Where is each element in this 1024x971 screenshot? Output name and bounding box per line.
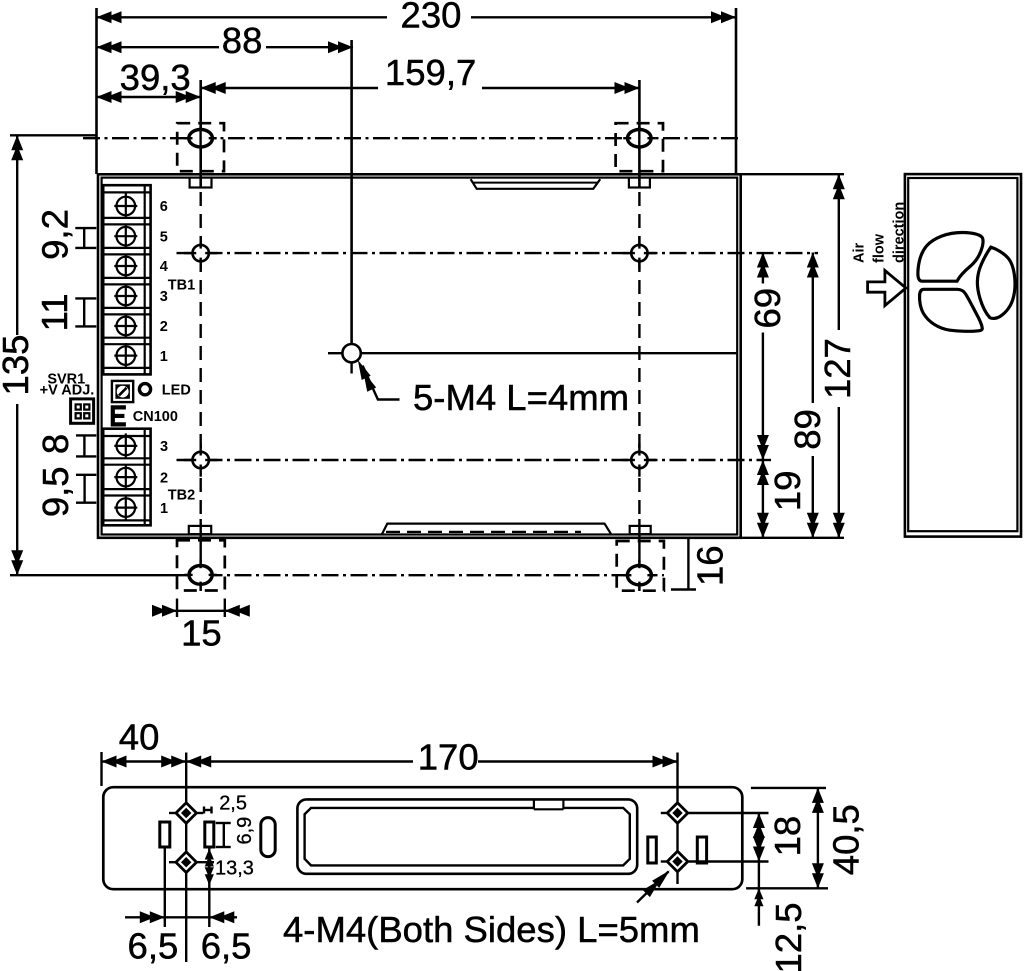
screw hole D (left column, lower row) — [193, 452, 209, 468]
svg-text:11: 11 — [34, 293, 75, 331]
dimension 18 — [758, 813, 760, 862]
svg-text:3: 3 — [160, 289, 168, 305]
slot middle — [205, 822, 214, 847]
dimension 6,5 6,5 — [125, 916, 237, 918]
centerline horizontal through lower screw holes — [177, 459, 772, 461]
svg-text:18: 18 — [767, 816, 808, 857]
svg-text:170: 170 — [418, 736, 479, 777]
svg-text:flow: flow — [872, 233, 888, 263]
centerline horizontal through upper screw holes — [177, 252, 819, 254]
left slot center line — [164, 847, 166, 927]
tab hole bottom-right — [627, 566, 651, 585]
slot right pair a — [648, 837, 657, 863]
dimension 230 extension lines — [95, 8, 98, 174]
svg-text:6,5: 6,5 — [201, 926, 252, 967]
tab foot bottom-left — [189, 526, 211, 534]
left hole column line — [185, 753, 187, 963]
TB1 screw terminal 2 — [114, 314, 137, 339]
centerline horizontal through top tab holes — [83, 137, 738, 139]
TB1 screw terminal 4 — [114, 254, 137, 279]
fan blade bottom — [920, 289, 983, 331]
svg-text:40,5: 40,5 — [825, 804, 866, 875]
bottom view case outline — [103, 787, 742, 889]
top view case outer outline — [98, 174, 741, 538]
dimension 135 — [16, 135, 18, 335]
air flow direction arrow — [868, 271, 906, 306]
tab hole bottom-left — [189, 566, 212, 585]
svg-text:2: 2 — [160, 470, 168, 486]
svg-text:2: 2 — [160, 319, 168, 335]
pin header 2x2 — [71, 399, 94, 423]
bottom edge louver inner dashed line — [386, 531, 581, 533]
svg-text:69: 69 — [747, 288, 788, 329]
screw hole M4 bottom-left (countersunk) — [176, 852, 197, 873]
vertical extension line center hole — [350, 40, 353, 344]
svg-text:15: 15 — [181, 612, 222, 653]
svg-text:40: 40 — [119, 716, 160, 757]
dimension 8 bracket — [76, 434, 96, 436]
middle slot center line / 13,3 shaft — [208, 849, 210, 928]
dimension 9,5 bracket — [76, 474, 96, 476]
dimension 89 — [812, 253, 814, 404]
vent slot notch — [533, 801, 535, 810]
svg-text:4-M4(Both Sides) L=5mm: 4-M4(Both Sides) L=5mm — [283, 909, 700, 950]
terminal block TB2 body — [103, 429, 150, 526]
svg-text:9,2: 9,2 — [35, 209, 76, 260]
svg-text:+V ADJ.: +V ADJ. — [40, 382, 95, 398]
TB1 screw terminal 6 — [114, 194, 137, 219]
tab foot top-left — [190, 178, 212, 188]
dimension 135 extension lines — [10, 134, 97, 136]
mounting tab top-left (dashed) — [177, 123, 224, 171]
svg-text:Air: Air — [851, 243, 867, 264]
TB2 screw terminal 3 — [114, 433, 137, 458]
svg-text:1: 1 — [160, 349, 168, 365]
TB2 screw terminal 1 — [114, 495, 137, 520]
svg-text:3: 3 — [160, 439, 168, 455]
connector CN100 — [111, 405, 126, 426]
svg-text:13,3: 13,3 — [215, 858, 254, 880]
svg-text:TB2: TB2 — [168, 488, 195, 504]
leader arrow 5-M4 — [363, 366, 400, 400]
dimension 9,2 bracket — [75, 227, 96, 229]
svg-text:89: 89 — [787, 409, 828, 450]
screw hole E (right column, lower row) — [631, 452, 647, 468]
fan blade right — [977, 247, 1015, 318]
TB1 screw terminal 1 — [114, 343, 137, 368]
fan blade upper-left — [918, 232, 983, 281]
screw hole A (39.3 column, upper row) — [193, 245, 209, 261]
dimension 2,5 bracket — [203, 807, 205, 814]
oval slot — [261, 818, 275, 857]
dimension 40,5 extension lines — [751, 787, 826, 789]
screw hole B (right column, upper row) — [631, 245, 647, 261]
tab foot top-right — [629, 178, 650, 188]
dimension 40,5 — [817, 788, 819, 888]
dimension 69 — [762, 253, 764, 284]
bottom view vent slot inner — [305, 808, 630, 866]
bottom edge louver — [382, 524, 611, 535]
dimension 15 — [176, 599, 178, 618]
side view fan case outer — [905, 174, 1021, 536]
svg-text:5: 5 — [160, 229, 168, 245]
vertical centerline left tab column — [199, 80, 202, 188]
leader arrow 4-M4 — [637, 872, 669, 903]
center hole horizontal line to right case edge — [361, 352, 737, 354]
svg-text:TB1: TB1 — [168, 278, 195, 294]
top view case inner outline — [102, 178, 738, 535]
svg-text:9,5: 9,5 — [35, 466, 76, 517]
mounting tab bottom-right (dashed) — [617, 541, 664, 591]
dimension 88 — [97, 46, 220, 48]
top edge louver — [471, 179, 601, 189]
dimension 159,7 — [201, 87, 378, 89]
screw hole M4 top-left (countersunk) — [176, 803, 197, 824]
svg-text:39,3: 39,3 — [120, 57, 191, 98]
centerline horizontal through bottom tab holes — [10, 574, 177, 576]
bottom view vent slot outer — [297, 799, 637, 873]
dimension 127 extension lines — [741, 173, 844, 175]
svg-text:135: 135 — [0, 335, 36, 396]
svg-text:LED: LED — [162, 383, 191, 399]
svg-text:230: 230 — [401, 0, 462, 35]
dimension 12,5 — [758, 862, 760, 926]
center hole horizontal line left stub — [328, 352, 344, 354]
svg-text:127: 127 — [817, 338, 858, 399]
tab foot bottom-right — [630, 526, 651, 534]
svg-text:88: 88 — [222, 20, 263, 61]
svg-text:19: 19 — [767, 470, 808, 511]
tab hole crosshair stubs — [199, 126, 201, 151]
vertical centerline right tab column — [638, 80, 641, 188]
mounting tab top-right (dashed) — [616, 123, 663, 171]
svg-text:8: 8 — [35, 434, 76, 454]
dimension 11 bracket — [75, 297, 96, 299]
tab hole top-right — [628, 130, 652, 147]
dimension 16 — [687, 538, 689, 590]
dimension 40 and 170 line — [102, 760, 414, 762]
svg-text:16: 16 — [690, 545, 731, 586]
TB1 screw terminal 5 — [114, 224, 137, 249]
svg-text:4: 4 — [160, 259, 168, 275]
svg-text:159,7: 159,7 — [385, 52, 476, 93]
TB1 screw terminal 3 — [114, 284, 137, 309]
dimension 6,9 bracket — [216, 822, 231, 824]
dimension 40 extension — [100, 752, 102, 786]
dimension 127 — [838, 174, 840, 330]
mounting tab bottom-left (dashed) — [177, 540, 225, 590]
svg-text:6: 6 — [160, 199, 168, 215]
screw hole M4 bottom-right (countersunk) — [667, 851, 688, 872]
svg-text:CN100: CN100 — [133, 409, 178, 425]
svg-text:6,5: 6,5 — [128, 926, 179, 967]
TB2 screw terminal 2 — [114, 465, 137, 490]
right hole column line — [676, 753, 678, 885]
svg-text:5-M4 L=4mm: 5-M4 L=4mm — [413, 377, 629, 418]
slot left — [160, 822, 170, 847]
dimension 230 — [97, 16, 388, 18]
screw hole M4 top-right (countersunk) — [667, 803, 688, 824]
dimension 39,3 — [97, 96, 201, 98]
tab hole top-left — [189, 130, 213, 147]
side view fan case inner — [908, 178, 1017, 531]
dimension 19 — [762, 460, 764, 538]
screw hole C (center) — [342, 344, 360, 362]
svg-text:2,5: 2,5 — [219, 793, 247, 815]
potentiometer SVR1 — [112, 381, 133, 402]
svg-text:12,5: 12,5 — [768, 902, 809, 971]
top edge louver inner line — [474, 182, 598, 184]
svg-text:6,9: 6,9 — [234, 817, 256, 845]
dimension 13,3 arrows — [205, 849, 214, 867]
terminal block TB1 body — [103, 185, 150, 374]
slot right pair b — [697, 837, 706, 863]
LED indicator — [139, 384, 150, 395]
